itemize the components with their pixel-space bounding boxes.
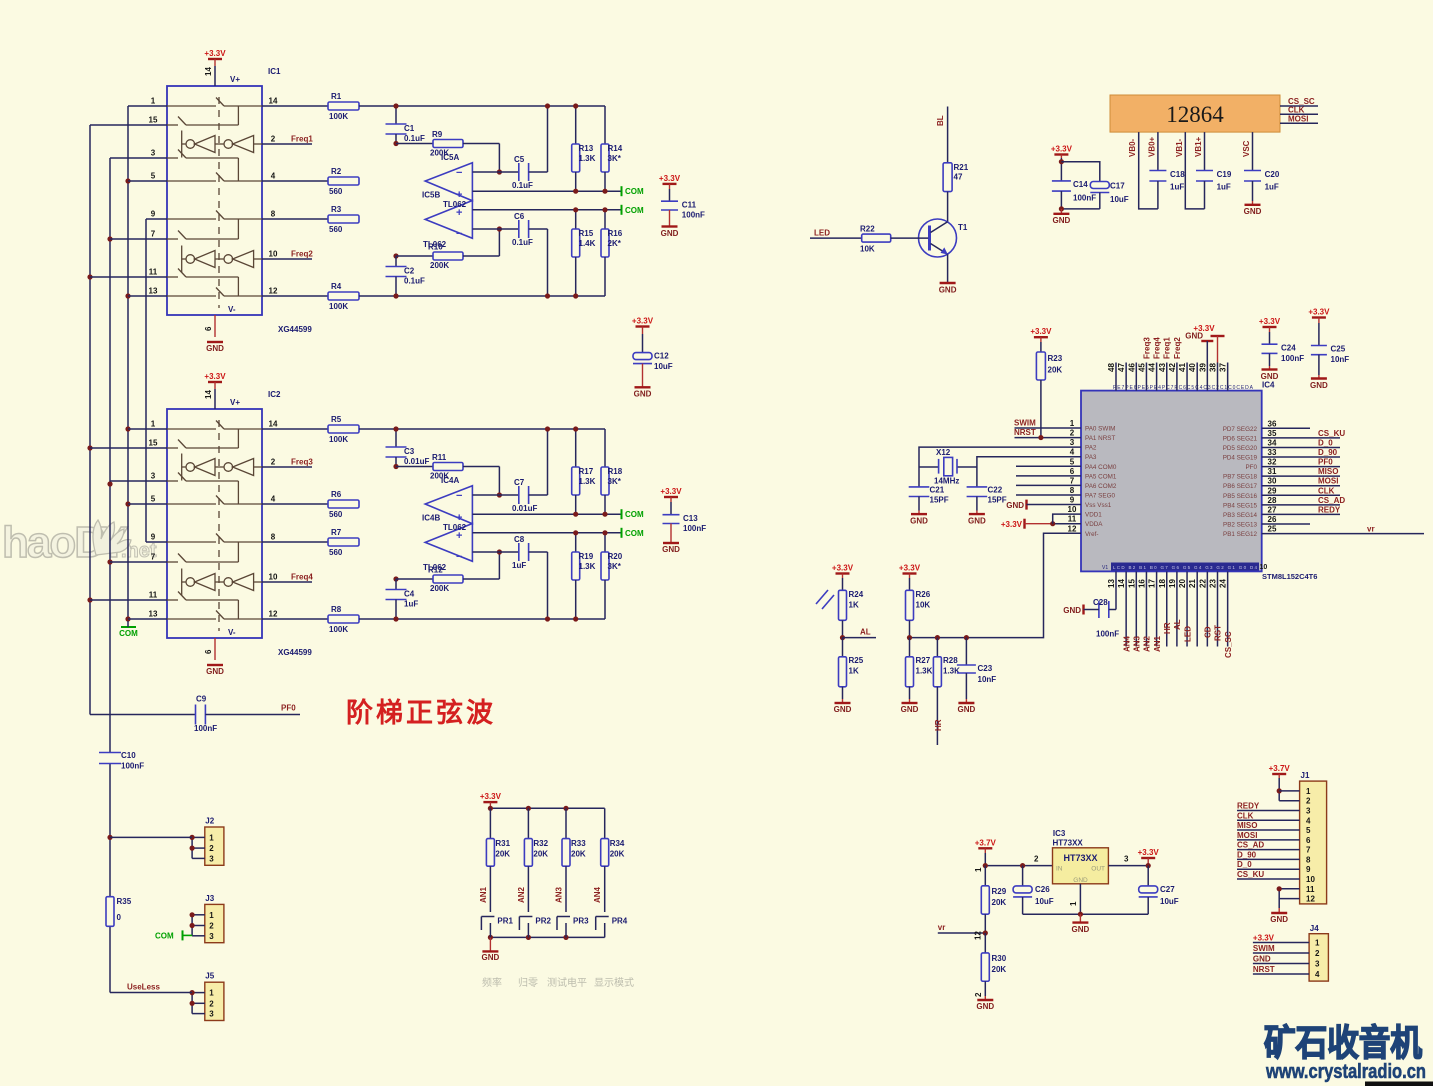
svg-text:4: 4 (271, 172, 276, 181)
svg-text:10uF: 10uF (1160, 897, 1179, 906)
svg-text:GND: GND (958, 705, 976, 714)
svg-text:PR4: PR4 (612, 917, 628, 926)
svg-text:+3.3V: +3.3V (1193, 324, 1215, 333)
net label NRST (1015, 437, 1082, 439)
net label +3.3V at J4 (1253, 942, 1309, 944)
resistor R31 (489, 808, 491, 838)
svg-text:20K: 20K (533, 850, 548, 859)
svg-text:10K: 10K (860, 245, 875, 254)
svg-text:MOSI: MOSI (1288, 114, 1308, 123)
svg-text:MOSI: MOSI (1237, 831, 1257, 840)
resistor R26 (906, 590, 914, 620)
svg-text:C17: C17 (1110, 182, 1125, 191)
svg-text:C28: C28 (1093, 598, 1108, 607)
svg-text:R5: R5 (331, 415, 342, 424)
svg-text:1.4K: 1.4K (579, 239, 596, 248)
svg-text:R16: R16 (608, 229, 623, 238)
connector J3 (205, 904, 224, 942)
capacitor C3 (395, 429, 397, 447)
IC IC1 box (167, 86, 262, 315)
wire IC2 pin 13 (128, 618, 167, 620)
resistor R17 (575, 429, 577, 467)
svg-text:AN2: AN2 (517, 886, 526, 903)
svg-text:36: 36 (1268, 419, 1277, 428)
svg-text:Freq1: Freq1 (1163, 337, 1172, 359)
resistor R15 (575, 210, 577, 229)
svg-text:C11: C11 (682, 201, 697, 210)
capacitor C22 (976, 467, 978, 487)
net label Freq1 (262, 143, 312, 145)
capacitor C19 (1204, 132, 1206, 170)
wire op-amp B+ output to COM (472, 532, 620, 534)
svg-text:C20: C20 (1265, 170, 1280, 179)
svg-text:8: 8 (1070, 486, 1075, 495)
wire T1 emitter to ground (947, 254, 949, 283)
svg-text:XG44599: XG44599 (278, 325, 312, 334)
svg-text:13: 13 (149, 287, 158, 296)
svg-text:1uF: 1uF (404, 600, 418, 609)
svg-text:200K: 200K (430, 584, 449, 593)
svg-text:R11: R11 (432, 453, 447, 462)
svg-text:Freq3: Freq3 (1142, 337, 1151, 359)
svg-text:CS_KU: CS_KU (1237, 870, 1264, 879)
svg-text:R8: R8 (331, 605, 342, 614)
wire MCU pins 5-8 (1016, 465, 1081, 467)
svg-text:41: 41 (1178, 363, 1187, 372)
svg-text:AN1: AN1 (1153, 635, 1162, 652)
wire IC2 pin 11 (90, 599, 167, 601)
svg-text:R6: R6 (331, 490, 342, 499)
svg-text:PB5 SEG16: PB5 SEG16 (1223, 493, 1257, 500)
resistor R2 (262, 180, 328, 182)
svg-text:IC4A: IC4A (441, 476, 459, 485)
svg-text:R7: R7 (331, 528, 342, 537)
svg-text:R14: R14 (608, 144, 623, 153)
junction (87, 274, 92, 279)
svg-text:1.3K: 1.3K (579, 562, 596, 571)
svg-text:D_90: D_90 (1237, 850, 1257, 859)
wire VB0- with capacitor loop (1139, 132, 1158, 209)
IC2 inverter pair (pin 2) (181, 454, 183, 481)
svg-text:D_0: D_0 (1237, 860, 1252, 869)
svg-text:VDDA: VDDA (1085, 521, 1103, 528)
svg-text:4: 4 (1315, 970, 1320, 979)
net label COM (621, 528, 623, 538)
svg-text:11: 11 (1068, 515, 1077, 524)
MCU bottom pin name strip (1111, 563, 1259, 571)
svg-text:PD6 SEG21: PD6 SEG21 (1223, 435, 1258, 442)
net label CS_KU at J1 (1237, 878, 1300, 880)
junction (125, 501, 130, 506)
svg-text:9: 9 (1070, 496, 1075, 505)
svg-text:R29: R29 (992, 887, 1007, 896)
resistor R16 (604, 210, 606, 229)
svg-text:+3.3V: +3.3V (1030, 327, 1052, 336)
svg-text:100K: 100K (329, 112, 348, 121)
svg-text:TL062: TL062 (443, 523, 467, 532)
svg-text:R25: R25 (849, 656, 864, 665)
svg-text:C3: C3 (404, 447, 415, 456)
svg-text:C26: C26 (1035, 885, 1050, 894)
junction (125, 293, 130, 298)
capacitor C21 (918, 467, 920, 487)
svg-text:IC5B: IC5B (422, 191, 440, 200)
svg-text:MOSI: MOSI (1318, 477, 1338, 486)
+3.3V tick at MCU pin11 (1023, 519, 1025, 529)
ground for C14 C17 (1060, 209, 1062, 214)
junction (87, 445, 92, 450)
svg-text:C12: C12 (654, 352, 669, 361)
svg-text:R22: R22 (860, 225, 875, 234)
svg-text:11: 11 (1306, 885, 1315, 894)
svg-text:+3.3V: +3.3V (204, 49, 226, 58)
svg-text:GND: GND (1270, 915, 1288, 924)
op-amp IC5B (425, 201, 472, 239)
svg-text:CS_AD: CS_AD (1318, 496, 1345, 505)
svg-text:GND: GND (662, 545, 680, 554)
push button PR3 (557, 916, 570, 918)
svg-text:J1: J1 (1301, 771, 1310, 780)
svg-text:1uF: 1uF (1217, 183, 1231, 192)
wire MCU pin10 VDD1 (1053, 514, 1081, 524)
op-amp IC4B (425, 524, 472, 562)
svg-text:PR2: PR2 (535, 917, 551, 926)
svg-text:10: 10 (1068, 505, 1077, 514)
svg-text:42: 42 (1168, 363, 1177, 372)
svg-text:10uF: 10uF (1110, 195, 1129, 204)
MCU bottom pins (1115, 571, 1117, 609)
svg-text:AN3: AN3 (1133, 635, 1142, 652)
svg-text:AN4: AN4 (1122, 635, 1131, 652)
svg-text:GND: GND (901, 705, 919, 714)
crystal X12 14MHz (919, 466, 939, 468)
svg-text:R18: R18 (608, 467, 623, 476)
svg-text:CD: CD (1204, 626, 1213, 638)
ground tick at MCU pin9 (1025, 500, 1027, 510)
svg-text:1: 1 (1306, 787, 1311, 796)
resistor R33 (565, 808, 567, 838)
svg-text:C18: C18 (1170, 170, 1185, 179)
svg-text:+3.3V: +3.3V (632, 317, 654, 326)
svg-text:+3.3V: +3.3V (1259, 317, 1281, 326)
svg-text:COM: COM (119, 629, 138, 638)
svg-text:GND: GND (939, 286, 957, 295)
svg-text:100nF: 100nF (1096, 630, 1119, 639)
IC IC2 box (167, 409, 262, 638)
svg-text:R33: R33 (571, 839, 586, 848)
junction (125, 426, 130, 431)
svg-text:3: 3 (1315, 960, 1320, 969)
svg-text:8: 8 (271, 210, 276, 219)
svg-text:200K: 200K (430, 261, 449, 270)
svg-text:CS_KU: CS_KU (1318, 429, 1345, 438)
svg-text:VDD1: VDD1 (1085, 512, 1102, 519)
svg-text:VB0+: VB0+ (1147, 136, 1156, 157)
svg-text:Freq3: Freq3 (291, 458, 313, 467)
svg-text:6: 6 (204, 326, 213, 331)
svg-text:46: 46 (1127, 363, 1136, 372)
svg-text:PD7 SEG22: PD7 SEG22 (1223, 426, 1258, 433)
svg-text:100K: 100K (329, 302, 348, 311)
svg-text:12: 12 (1068, 524, 1077, 533)
svg-text:GND: GND (910, 517, 928, 526)
svg-text:AN2: AN2 (1143, 635, 1152, 652)
svg-text:PA4 COM0: PA4 COM0 (1085, 464, 1117, 471)
svg-text:PA3: PA3 (1085, 454, 1097, 461)
capacitor C9 (90, 714, 196, 716)
net label vr (938, 932, 986, 934)
svg-text:X12: X12 (936, 448, 951, 457)
svg-text:AN4: AN4 (593, 886, 602, 903)
svg-text:R2: R2 (331, 167, 342, 176)
svg-text:VB1+: VB1+ (1194, 136, 1203, 157)
resistor R35 (106, 897, 114, 927)
net label MOSI at J1 (1237, 839, 1300, 841)
resistor R10 (396, 255, 433, 257)
junction (125, 616, 130, 621)
junction (107, 835, 112, 840)
svg-text:1: 1 (1315, 939, 1320, 948)
svg-text:GND: GND (482, 953, 500, 962)
svg-text:Freq2: Freq2 (291, 250, 313, 259)
wire top rail (359, 428, 605, 430)
svg-text:29: 29 (1268, 486, 1277, 495)
svg-text:48: 48 (1107, 363, 1116, 372)
svg-text:3: 3 (1124, 855, 1129, 864)
svg-text:PB6 SEG17: PB6 SEG17 (1223, 483, 1257, 490)
svg-text:PA1 NRST: PA1 NRST (1085, 435, 1115, 442)
svg-text:9: 9 (151, 210, 156, 219)
wire column AN1 (489, 866, 491, 912)
svg-text:0: 0 (117, 913, 122, 922)
svg-text:0.1uF: 0.1uF (512, 181, 533, 190)
svg-text:COM: COM (625, 187, 644, 196)
svg-text:REDY: REDY (1318, 505, 1341, 514)
left bus vertical wires (89, 125, 91, 715)
svg-text:C1: C1 (404, 124, 415, 133)
svg-text:15: 15 (149, 116, 158, 125)
svg-text:5: 5 (1306, 826, 1311, 835)
svg-text:0.01uF: 0.01uF (512, 504, 537, 513)
svg-text:31: 31 (1268, 467, 1277, 476)
transistor T1 (919, 219, 957, 257)
MCU IC4 STM8L152C4T6 (1081, 391, 1262, 572)
svg-text:GND: GND (1310, 381, 1328, 390)
svg-text:SWIM: SWIM (1253, 944, 1275, 953)
svg-text:1: 1 (209, 911, 214, 920)
connector J2 (205, 827, 224, 865)
ground for key ladder (489, 937, 491, 951)
svg-text:+3.3V: +3.3V (1138, 848, 1160, 857)
wire BL to R21 (947, 107, 949, 163)
svg-text:3: 3 (209, 932, 214, 941)
IC2 switch cell D (pins 11,13 to 12) (167, 599, 178, 601)
svg-text:1: 1 (151, 97, 156, 106)
capacitor C26 (1022, 866, 1024, 886)
photoresistor R24 (839, 590, 847, 620)
wire IC1 pin 3 (110, 157, 167, 159)
svg-text:GND: GND (1063, 606, 1081, 615)
resistor R3 (262, 218, 328, 220)
svg-text:R3: R3 (331, 205, 342, 214)
svg-text:HT73XX: HT73XX (1053, 839, 1084, 848)
svg-text:R24: R24 (849, 590, 864, 599)
svg-text:V-: V- (228, 628, 236, 637)
svg-text:IC3: IC3 (1053, 829, 1066, 838)
svg-text:GND: GND (1073, 877, 1088, 884)
resistor R12 (396, 578, 433, 580)
svg-text:45: 45 (1137, 363, 1146, 372)
capacitor C2 (393, 253, 398, 258)
junction (107, 559, 112, 564)
resistor R19 (575, 533, 577, 552)
svg-text:100K: 100K (329, 625, 348, 634)
svg-text:14: 14 (269, 97, 278, 106)
wire key ladder bottom rail (490, 936, 604, 938)
svg-text:−: − (456, 551, 462, 563)
svg-text:12: 12 (1306, 895, 1315, 904)
svg-text:2: 2 (1034, 855, 1039, 864)
svg-text:RST: RST (1214, 625, 1223, 641)
svg-text:9: 9 (151, 533, 156, 542)
svg-text:0.01uF: 0.01uF (404, 457, 429, 466)
resistor R9 (396, 143, 433, 145)
IC2 ground (214, 638, 216, 660)
svg-text:15PF: 15PF (930, 496, 949, 505)
svg-text:C23: C23 (978, 664, 993, 673)
svg-text:20K: 20K (495, 850, 510, 859)
wire J3 pin stubs (192, 914, 205, 916)
svg-text:GND: GND (634, 390, 652, 399)
svg-text:IC1: IC1 (268, 67, 281, 76)
svg-text:CLK: CLK (1288, 105, 1305, 114)
svg-text:C24: C24 (1281, 344, 1296, 353)
svg-text:100nF: 100nF (194, 724, 217, 733)
capacitor C5 (472, 171, 518, 173)
svg-text:10nF: 10nF (1331, 355, 1350, 364)
wire IC2 pin 3 (110, 480, 167, 482)
svg-text:24: 24 (1219, 579, 1228, 588)
svg-text:C8: C8 (514, 535, 525, 544)
svg-text:PF0: PF0 (281, 704, 296, 713)
svg-text:7: 7 (1306, 846, 1311, 855)
svg-text:PB2 SEG13: PB2 SEG13 (1223, 522, 1257, 529)
svg-text:2: 2 (1315, 949, 1320, 958)
resistor R13 (575, 106, 577, 144)
regulator IC3 HT73XX (1053, 848, 1109, 884)
svg-text:22: 22 (1198, 579, 1207, 588)
svg-text:13: 13 (1107, 579, 1116, 588)
svg-text:R34: R34 (610, 839, 625, 848)
svg-text:C6: C6 (514, 212, 525, 221)
wire IC2 pin 15 (90, 447, 167, 449)
svg-text:C21: C21 (930, 486, 945, 495)
wire +3.7V node to regulator (985, 865, 1052, 867)
resistor R5 (262, 428, 328, 430)
resistor R7 (262, 541, 328, 543)
IC1 switch cell B (pins 3,5 to 4) (167, 157, 178, 159)
svg-text:2: 2 (209, 999, 214, 1008)
svg-text:11: 11 (149, 268, 158, 277)
svg-text:VB1-: VB1- (1175, 138, 1184, 157)
wire IC2 pin 5 (128, 503, 167, 505)
svg-text:C19: C19 (1217, 170, 1232, 179)
net label COM (621, 186, 623, 196)
svg-text:0.1uF: 0.1uF (512, 238, 533, 247)
svg-text:R31: R31 (495, 839, 510, 848)
wire bus to J2 (110, 836, 192, 838)
svg-text:R28: R28 (943, 656, 958, 665)
resistor R1 (262, 105, 328, 107)
svg-text:R30: R30 (992, 954, 1007, 963)
svg-text:PF0: PF0 (1245, 464, 1257, 471)
wire bottom rail (359, 618, 605, 620)
svg-text:12: 12 (269, 287, 278, 296)
resistor R18 (604, 429, 606, 467)
svg-text:28: 28 (1268, 496, 1277, 505)
svg-text:560: 560 (329, 225, 343, 234)
svg-text:1.3K: 1.3K (579, 477, 596, 486)
svg-text:+3.7V: +3.7V (1269, 764, 1291, 773)
svg-text:25: 25 (1268, 525, 1277, 534)
ground for regulator (1079, 914, 1081, 922)
svg-text:2: 2 (209, 922, 214, 931)
svg-text:R13: R13 (579, 144, 594, 153)
svg-text:R1: R1 (331, 92, 342, 101)
svg-text:PA0 SWIM: PA0 SWIM (1085, 426, 1115, 433)
svg-text:10: 10 (1260, 564, 1268, 571)
svg-text:PA2: PA2 (1085, 445, 1097, 452)
svg-text:7: 7 (1070, 476, 1075, 485)
IC1 dashed control line (218, 97, 220, 308)
svg-text:15: 15 (149, 439, 158, 448)
svg-text:3: 3 (151, 472, 156, 481)
capacitor C27 (1147, 866, 1149, 886)
wire IC1 pin 7 (110, 238, 167, 240)
wire MCU pin4 to crystal (977, 457, 1081, 467)
svg-text:COM: COM (625, 206, 644, 215)
svg-text:显示模式: 显示模式 (594, 976, 634, 989)
connector J5 (205, 982, 224, 1020)
svg-text:J3: J3 (205, 894, 214, 903)
svg-text:J2: J2 (205, 817, 214, 826)
junction (107, 236, 112, 241)
resistor R11 (396, 466, 433, 468)
svg-text:GND: GND (1244, 207, 1262, 216)
wire regulator output (1108, 865, 1148, 867)
svg-text:1: 1 (151, 420, 156, 429)
ground at MCU pin39 (1201, 340, 1213, 342)
capacitor C28 (1098, 601, 1100, 618)
resistor R34 (604, 808, 606, 838)
svg-text:PB1 SEG12: PB1 SEG12 (1223, 531, 1257, 538)
svg-text:C22: C22 (988, 486, 1003, 495)
svg-text:15: 15 (1127, 579, 1136, 588)
IC2 switch cell B (pins 3,5 to 4) (167, 480, 178, 482)
svg-text:5: 5 (151, 172, 156, 181)
svg-text:TL062: TL062 (423, 563, 447, 572)
wire IC1 pin 9 (146, 218, 167, 220)
svg-text:C10: C10 (121, 751, 136, 760)
capacitor C8 (472, 551, 518, 553)
svg-text:21: 21 (1188, 579, 1197, 588)
svg-text:IC2: IC2 (268, 390, 281, 399)
svg-text:R4: R4 (331, 282, 342, 291)
svg-text:MISO: MISO (1237, 821, 1257, 830)
svg-text:5: 5 (1070, 457, 1075, 466)
svg-text:C14: C14 (1073, 180, 1088, 189)
resistor R20 (604, 533, 606, 552)
